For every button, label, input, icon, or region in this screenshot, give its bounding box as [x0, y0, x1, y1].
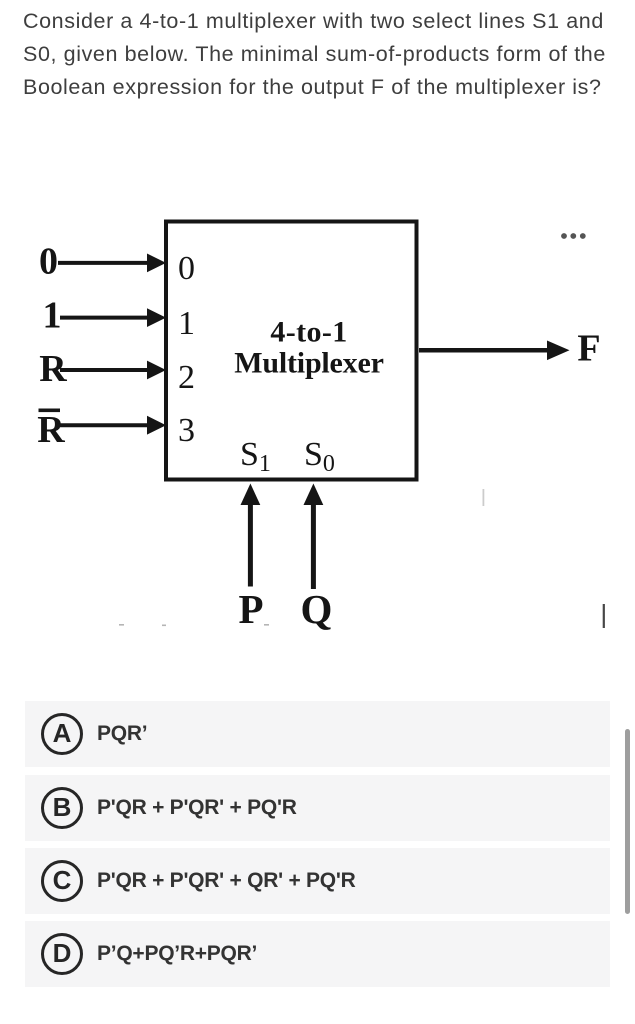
node label 1 input: [43, 295, 62, 337]
node label F output: [577, 327, 600, 369]
node label 0 input: [39, 241, 58, 283]
wire Q to S0: [304, 484, 324, 590]
menu dots icon: [561, 233, 586, 239]
wire input 0 to pin 0: [58, 254, 166, 273]
svg-text:1: 1: [43, 295, 62, 337]
svg-text:0: 0: [39, 241, 58, 283]
wire input R to pin 2: [60, 361, 166, 380]
scan speck 2: [162, 625, 166, 627]
svg-text:S0: S0: [304, 436, 335, 477]
node label R-bar input: [37, 409, 65, 452]
option A row: [25, 701, 610, 767]
node label P: [238, 586, 263, 632]
wire input R-bar to pin 3: [57, 416, 166, 435]
pin 3: [178, 412, 195, 449]
mux title Multiplexer: [234, 347, 383, 380]
option D row: [25, 921, 610, 987]
scan speck 1: [119, 624, 124, 626]
option B row: [25, 775, 610, 841]
svg-text:3: 3: [178, 412, 195, 449]
svg-text:S1: S1: [240, 436, 271, 477]
cursor mark: [603, 604, 605, 628]
svg-text:R: R: [37, 409, 65, 451]
svg-text:2: 2: [178, 359, 195, 396]
wire input 1 to pin 1: [60, 308, 166, 327]
svg-text:Multiplexer: Multiplexer: [234, 347, 383, 380]
svg-text:P: P: [238, 586, 263, 632]
node label R input: [39, 348, 67, 390]
scan speck faint vertical: [483, 489, 485, 506]
wire output to F: [419, 341, 570, 361]
svg-text:F: F: [577, 327, 600, 369]
node label Q: [301, 586, 333, 632]
scrollbar thumb: [625, 729, 630, 914]
wire P to S1: [241, 484, 261, 587]
option C row: [25, 848, 610, 914]
svg-text:0: 0: [178, 250, 195, 287]
pin 1: [178, 305, 195, 342]
pin 0: [178, 250, 195, 287]
pin 2: [178, 359, 195, 396]
svg-text:Q: Q: [301, 586, 333, 632]
mux U1 4-to-1 multiplexer box: [166, 222, 417, 480]
svg-text:1: 1: [178, 305, 195, 342]
pin S1 select: [240, 436, 271, 477]
pin S0 select: [304, 436, 335, 477]
scan speck 3: [264, 624, 269, 626]
svg-text:4-to-1: 4-to-1: [270, 316, 347, 349]
question text: [23, 5, 633, 104]
mux title 4-to-1: [270, 316, 347, 349]
